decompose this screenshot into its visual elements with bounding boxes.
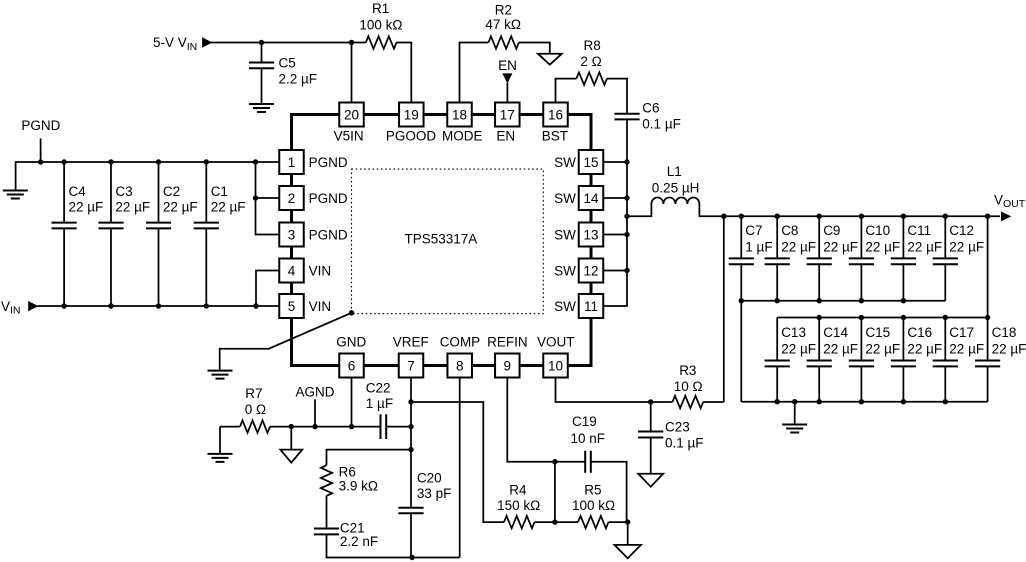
junction C14 top xyxy=(817,315,822,320)
capacitor C5 2.2 uF xyxy=(249,63,274,69)
ground (open) AGND xyxy=(280,450,302,463)
junction C18 top xyxy=(985,315,990,320)
svg-text:R5: R5 xyxy=(584,483,601,498)
junction C11 bottom xyxy=(901,298,906,303)
svg-text:22 µF: 22 µF xyxy=(907,341,942,356)
junction SW14 xyxy=(624,195,629,200)
junction SW12 xyxy=(624,268,629,273)
wire pins 2-3 PGND bus xyxy=(256,162,280,235)
junction C16 top xyxy=(901,315,906,320)
wire PGND label stub xyxy=(40,138,42,162)
pin 5 box xyxy=(279,294,304,318)
wire pin 16 BST up to R8 xyxy=(556,79,577,103)
wire VREF to R4 left xyxy=(411,402,504,522)
svg-text:C1: C1 xyxy=(211,184,228,199)
ground (open) under R5 xyxy=(614,545,641,558)
svg-text:22 µF: 22 µF xyxy=(992,341,1026,356)
junction row2 riser xyxy=(985,214,990,219)
junction C23 top xyxy=(648,399,653,404)
capacitor C11 xyxy=(891,258,916,264)
wire VIN rail xyxy=(38,305,280,307)
capacitor C9 xyxy=(807,258,832,264)
svg-text:C13: C13 xyxy=(781,325,806,340)
junction PGND stub xyxy=(38,159,43,164)
capacitor C3 22 uF xyxy=(98,223,123,229)
svg-text:18: 18 xyxy=(452,107,467,122)
svg-text:0 Ω: 0 Ω xyxy=(245,402,266,417)
pin 13 box xyxy=(579,223,604,247)
svg-text:22 µF: 22 µF xyxy=(781,240,816,255)
wire output ground rail xyxy=(741,401,987,403)
svg-text:22 µF: 22 µF xyxy=(781,341,816,356)
wire row1 gnd drop xyxy=(740,301,742,402)
svg-text:22 µF: 22 µF xyxy=(163,200,198,215)
pin 17 box xyxy=(495,103,520,127)
wire row2 top rail xyxy=(777,317,987,319)
junction pin bus top xyxy=(253,159,258,164)
svg-text:C3: C3 xyxy=(115,184,132,199)
svg-text:SW: SW xyxy=(554,191,576,206)
svg-text:22 µF: 22 µF xyxy=(865,240,900,255)
junction 5V at pin20 xyxy=(349,40,354,45)
wire R4/R5 node riser xyxy=(554,462,556,522)
wire output cap row1 leads xyxy=(860,216,862,301)
port arrow 5-V VIN input xyxy=(202,37,212,48)
wire SW pin stub xyxy=(591,270,627,272)
capacitor C14 xyxy=(807,361,832,367)
svg-text:1 µF: 1 µF xyxy=(366,396,393,411)
pin 10 box xyxy=(543,354,568,378)
junction C3 bottom xyxy=(108,303,113,308)
capacitor C8 xyxy=(765,258,790,264)
svg-text:9: 9 xyxy=(504,358,512,373)
resistor R3 10 &#937; xyxy=(672,396,703,408)
wire R3 right xyxy=(703,401,724,403)
resistor R2 47 k&#937; xyxy=(488,36,518,48)
ground (open) under C23 xyxy=(638,474,663,487)
junction 5V at C5 xyxy=(259,40,264,45)
wire C1 leads xyxy=(205,162,207,306)
pin 4 box xyxy=(279,259,304,283)
junction VREF-R4 tap xyxy=(408,399,413,404)
wire C19 right down to R5 xyxy=(591,462,627,522)
junction pin6 xyxy=(349,424,354,429)
wire AGND label stub xyxy=(314,399,316,426)
svg-text:TPS53317A: TPS53317A xyxy=(405,232,478,247)
svg-text:22 µF: 22 µF xyxy=(115,200,150,215)
junction SW L1 tap xyxy=(624,214,629,219)
wire pin 7 VREF down through C20 xyxy=(410,378,412,558)
junction C14 bottom xyxy=(817,399,822,404)
pin 16 box xyxy=(543,103,568,127)
svg-text:3.9 kΩ: 3.9 kΩ xyxy=(339,479,378,494)
wire R5 right to ground xyxy=(609,522,628,545)
inductor L1 xyxy=(627,198,1000,217)
svg-text:C8: C8 xyxy=(781,223,798,238)
wire output cap row2 leads xyxy=(776,318,778,402)
svg-text:L1: L1 xyxy=(667,164,682,179)
junction C4 bottom xyxy=(61,303,66,308)
svg-text:0.25 µH: 0.25 µH xyxy=(652,180,700,195)
svg-text:PGOOD: PGOOD xyxy=(386,128,437,143)
wire R3 riser to VOUT rail xyxy=(723,216,725,402)
capacitor C7 xyxy=(729,258,754,264)
svg-text:REFIN: REFIN xyxy=(487,334,527,349)
junction C7 top xyxy=(739,214,744,219)
junction C3 top xyxy=(108,159,113,164)
ground under C5 xyxy=(249,104,274,112)
svg-text:0.1 µF: 0.1 µF xyxy=(642,117,681,132)
wire C4 leads xyxy=(63,162,65,306)
svg-text:V5IN: V5IN xyxy=(334,128,364,143)
pin 11 box xyxy=(579,294,604,318)
svg-text:C11: C11 xyxy=(907,223,931,238)
junction C9 bottom xyxy=(817,298,822,303)
wire 5-V VIN rail to R1 xyxy=(211,42,366,44)
wire output cap row1 leads xyxy=(818,216,820,301)
wire R1 right to pin 19 xyxy=(397,43,412,104)
wire pin 4 VIN drop xyxy=(256,271,280,307)
svg-text:C21: C21 xyxy=(340,520,365,535)
junction gnd stub xyxy=(792,399,797,404)
junction C11 top xyxy=(901,214,906,219)
wire row2 VOUT riser xyxy=(987,216,989,317)
svg-text:SW: SW xyxy=(554,263,576,278)
capacitor C6 0.1 uF xyxy=(614,114,639,120)
svg-text:R4: R4 xyxy=(509,483,527,498)
svg-text:6: 6 xyxy=(348,358,356,373)
svg-text:R3: R3 xyxy=(679,363,696,378)
svg-text:47 kΩ: 47 kΩ xyxy=(485,17,521,32)
ground (open) under R2 xyxy=(538,54,562,65)
resistor R6 3.9 k&#937; xyxy=(321,465,332,495)
capacitor C1 22 uF xyxy=(194,223,219,229)
svg-text:C16: C16 xyxy=(907,325,932,340)
pin 15 box xyxy=(579,150,604,174)
capacitor C16 xyxy=(891,361,916,367)
svg-text:22 µF: 22 µF xyxy=(211,200,246,215)
wire pin 18 MODE up to R2 xyxy=(460,43,489,104)
wire C22 right xyxy=(387,426,411,428)
svg-text:C2: C2 xyxy=(163,184,180,199)
capacitor C18 xyxy=(975,361,1000,367)
resistor R5 100 k&#937; xyxy=(578,516,608,528)
svg-text:R7: R7 xyxy=(245,386,262,401)
svg-text:22 µF: 22 µF xyxy=(949,341,984,356)
svg-text:8: 8 xyxy=(456,358,464,373)
wire R8 right through C6 down SW bus to pin 11 xyxy=(591,79,627,306)
pin 3 box xyxy=(279,223,304,247)
svg-text:1: 1 xyxy=(288,155,296,170)
pin 20 box xyxy=(339,103,364,127)
wire output cap row2 leads xyxy=(902,318,904,402)
svg-text:R6: R6 xyxy=(339,465,356,480)
junction C22 right xyxy=(408,424,413,429)
wire C5 leads xyxy=(261,43,263,105)
resistor R7 0 &#937; xyxy=(240,420,270,432)
junction C20 bottom xyxy=(409,555,414,560)
capacitor C22 1 uF xyxy=(381,414,387,439)
svg-text:17: 17 xyxy=(500,107,515,122)
svg-text:C9: C9 xyxy=(823,223,840,238)
svg-text:C10: C10 xyxy=(865,223,890,238)
pin 12 box xyxy=(579,259,604,283)
junction C17 bottom xyxy=(943,399,948,404)
resistor R4 150 k&#937; xyxy=(504,516,534,528)
junction C16 bottom xyxy=(901,399,906,404)
junction C8 bottom xyxy=(775,298,780,303)
svg-text:R8: R8 xyxy=(584,38,601,53)
svg-text:MODE: MODE xyxy=(442,128,483,143)
capacitor C12 xyxy=(933,258,958,264)
wire EN arrow to pin 17 xyxy=(506,83,508,103)
svg-text:100 kΩ: 100 kΩ xyxy=(359,18,402,33)
svg-text:EN: EN xyxy=(498,58,517,73)
wire pin 10 VOUT to R3 xyxy=(556,378,673,402)
svg-text:13: 13 xyxy=(583,227,598,242)
junction R3 riser xyxy=(721,214,726,219)
wire thermal pad to ground xyxy=(220,313,352,370)
junction C2 bottom xyxy=(156,303,161,308)
junction AGND stub xyxy=(312,424,317,429)
port arrow EN input xyxy=(502,73,512,83)
wire output cap row2 leads xyxy=(987,318,989,402)
svg-text:R1: R1 xyxy=(372,1,389,16)
junction C10 top xyxy=(859,214,864,219)
capacitor C17 xyxy=(933,361,958,367)
junction REFIN node xyxy=(552,459,557,464)
svg-text:2.2 nF: 2.2 nF xyxy=(340,534,378,549)
wire output cap row1 leads xyxy=(944,216,946,301)
junction thermal pad node xyxy=(349,310,354,315)
wire R7 right to C22 xyxy=(270,426,380,428)
pin 8 box xyxy=(447,354,472,378)
svg-text:19: 19 xyxy=(404,107,419,122)
pin 19 box xyxy=(399,103,424,127)
pin 6 box xyxy=(339,354,364,378)
svg-text:C4: C4 xyxy=(69,184,87,199)
svg-text:PGND: PGND xyxy=(309,155,348,170)
wire VREF branch to R6 xyxy=(327,450,412,466)
svg-text:C22: C22 xyxy=(366,380,391,395)
ground output cap bank xyxy=(782,425,807,433)
wire output cap row1 leads xyxy=(776,216,778,301)
port arrow VOUT output xyxy=(1001,212,1011,222)
junction C17 top xyxy=(943,315,948,320)
junction C15 bottom xyxy=(859,399,864,404)
capacitor C19 10 nF xyxy=(585,451,591,473)
capacitor C4 22 uF xyxy=(52,223,77,229)
junction C8 top xyxy=(775,214,780,219)
svg-text:22 µF: 22 µF xyxy=(823,341,858,356)
svg-text:1 µF: 1 µF xyxy=(745,240,772,255)
junction R5 right xyxy=(625,519,630,524)
svg-text:VIN: VIN xyxy=(309,263,332,278)
svg-text:EN: EN xyxy=(496,128,515,143)
wire row1 bottom rail xyxy=(741,300,945,302)
junction C1 top xyxy=(204,159,209,164)
resistor R8 2 &#937; xyxy=(576,72,607,84)
wire output cap row2 leads xyxy=(944,318,946,402)
svg-text:SW: SW xyxy=(554,227,576,242)
junction AGND gnd xyxy=(289,424,294,429)
junction C13 bottom xyxy=(775,399,780,404)
svg-text:22 µF: 22 µF xyxy=(69,200,104,215)
port arrow VIN input xyxy=(28,301,38,311)
svg-text:2 Ω: 2 Ω xyxy=(580,54,601,69)
ground thermal pad xyxy=(208,371,233,379)
svg-text:2.2 µF: 2.2 µF xyxy=(279,71,318,86)
svg-text:0.1 µF: 0.1 µF xyxy=(665,435,704,450)
svg-text:15: 15 xyxy=(583,155,598,170)
svg-text:20: 20 xyxy=(344,107,359,122)
svg-text:PGND: PGND xyxy=(309,227,348,242)
svg-text:BST: BST xyxy=(542,128,568,143)
junction C4 top xyxy=(61,159,66,164)
svg-text:COMP: COMP xyxy=(440,334,481,349)
wire R4 right to R5 left xyxy=(535,521,579,523)
svg-text:SW: SW xyxy=(554,155,576,170)
wire output cap row1 leads xyxy=(902,216,904,301)
junction SW15 xyxy=(624,159,629,164)
svg-text:AGND: AGND xyxy=(296,384,335,399)
junction C15 top xyxy=(859,315,864,320)
svg-text:PGND: PGND xyxy=(309,191,348,206)
wire pin 9 REFIN to C19 xyxy=(507,378,585,462)
svg-text:C23: C23 xyxy=(665,419,690,434)
svg-text:22 µF: 22 µF xyxy=(823,240,858,255)
capacitor C15 xyxy=(849,361,874,367)
junction C2 top xyxy=(156,159,161,164)
svg-text:C19: C19 xyxy=(572,414,597,429)
wire SW pin stub xyxy=(591,197,627,199)
svg-text:VIN: VIN xyxy=(309,299,332,314)
svg-text:3: 3 xyxy=(288,227,296,242)
svg-text:GND: GND xyxy=(336,334,366,349)
wire pin 8 COMP down xyxy=(459,378,461,558)
junction C10 bottom xyxy=(859,298,864,303)
capacitor C13 xyxy=(765,361,790,367)
svg-text:2: 2 xyxy=(288,191,296,206)
svg-text:5: 5 xyxy=(288,299,296,314)
svg-text:150 kΩ: 150 kΩ xyxy=(497,498,540,513)
svg-text:16: 16 xyxy=(548,107,563,122)
junction SW13 xyxy=(624,232,629,237)
wire output cap row2 leads xyxy=(860,318,862,402)
pin 18 box xyxy=(447,103,472,127)
junction C12 top xyxy=(943,214,948,219)
svg-text:14: 14 xyxy=(583,191,599,206)
svg-text:11: 11 xyxy=(584,299,598,314)
svg-text:22 µF: 22 µF xyxy=(907,240,942,255)
wire pin 6 GND down xyxy=(351,378,353,427)
wire R6 to C21 to bottom rail xyxy=(327,496,460,558)
wire C3 leads xyxy=(110,162,112,306)
svg-text:C18: C18 xyxy=(992,325,1017,340)
svg-text:SW: SW xyxy=(554,299,576,314)
junction C7 bottom xyxy=(739,298,744,303)
resistor R1 100 k&#937; xyxy=(366,36,397,48)
wire R2 right to ground xyxy=(519,43,550,54)
capacitor C21 2.2 nF xyxy=(314,529,339,535)
capacitor C20 33 pF xyxy=(398,508,423,514)
svg-text:PGND: PGND xyxy=(21,118,60,133)
pin 2 box xyxy=(279,186,304,210)
svg-text:C7: C7 xyxy=(745,223,762,238)
wire C2 leads xyxy=(158,162,160,306)
pin 14 box xyxy=(579,186,604,210)
svg-text:C20: C20 xyxy=(417,470,442,485)
svg-text:22 µF: 22 µF xyxy=(949,240,984,255)
svg-text:VOUT: VOUT xyxy=(537,334,575,349)
svg-text:C12: C12 xyxy=(949,223,974,238)
svg-text:22 µF: 22 µF xyxy=(865,341,900,356)
junction pin2 bus xyxy=(253,195,258,200)
ground left of R7 xyxy=(208,454,233,462)
wire output cap row1 leads xyxy=(740,216,742,301)
svg-text:100 kΩ: 100 kΩ xyxy=(572,498,615,513)
capacitor C2 22 uF xyxy=(146,223,171,229)
svg-text:7: 7 xyxy=(407,358,415,373)
wire SW pin stub xyxy=(591,234,627,236)
svg-text:VREF: VREF xyxy=(393,334,429,349)
svg-text:C15: C15 xyxy=(865,325,890,340)
junction R6 branch xyxy=(408,447,413,452)
svg-text:C14: C14 xyxy=(823,325,848,340)
wire PGND rail xyxy=(16,162,280,190)
svg-text:C5: C5 xyxy=(279,56,296,71)
wire ground stub below AGND rail xyxy=(290,427,292,450)
pin 1 box xyxy=(279,150,304,174)
op-amp U1 TPS53317A IC body outline xyxy=(292,115,592,366)
junction R4-R5 node xyxy=(552,519,557,524)
svg-text:C6: C6 xyxy=(642,100,659,115)
wire output ground stub xyxy=(794,402,796,424)
svg-text:R2: R2 xyxy=(495,3,512,18)
wire SW pin stub xyxy=(591,161,627,163)
junction pin4 drop xyxy=(253,303,258,308)
svg-text:C17: C17 xyxy=(949,325,974,340)
svg-text:4: 4 xyxy=(288,263,296,278)
wire C23 leads xyxy=(650,402,652,474)
svg-text:12: 12 xyxy=(583,263,598,278)
wire output cap row2 leads xyxy=(818,318,820,402)
wire 5-V rail down to pin 20 V5IN xyxy=(351,43,353,104)
TPS53317A inner dashed thermal-pad rectangle xyxy=(352,169,544,314)
capacitor C23 0.1 uF xyxy=(638,432,663,438)
svg-text:10 Ω: 10 Ω xyxy=(674,379,703,394)
junction C1 bottom xyxy=(204,303,209,308)
capacitor C10 xyxy=(849,258,874,264)
svg-text:10 nF: 10 nF xyxy=(571,431,606,446)
ground PGND symbol xyxy=(3,191,28,199)
junction C9 top xyxy=(817,214,822,219)
pin 7 box xyxy=(399,354,424,378)
pin 9 box xyxy=(495,354,520,378)
svg-text:33 pF: 33 pF xyxy=(417,486,452,501)
svg-text:10: 10 xyxy=(548,358,563,373)
wire R7 left to ground xyxy=(220,427,240,454)
